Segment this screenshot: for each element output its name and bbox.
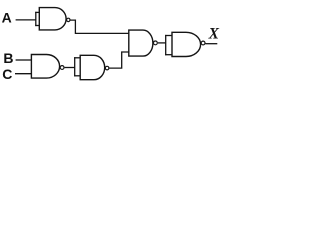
svg-text:C: C <box>2 66 12 82</box>
svg-text:B: B <box>3 50 13 66</box>
svg-text:A: A <box>2 9 12 25</box>
svg-text:X: X <box>208 26 220 43</box>
